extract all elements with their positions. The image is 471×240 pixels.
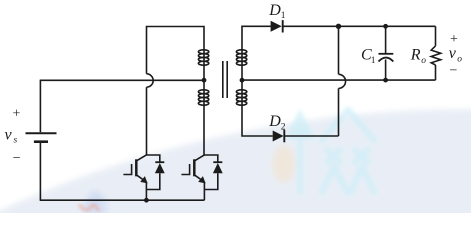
svg-text:v: v: [449, 45, 457, 62]
Q2 emitter arrowhead: [198, 176, 205, 183]
svg-text:1: 1: [281, 11, 286, 21]
svg-text:−: −: [449, 64, 457, 79]
watermark logo pink check: [79, 204, 99, 211]
transformer secondary bottom winding: [236, 90, 246, 106]
diode branch top: [204, 155, 217, 162]
Q1 freewheel diode triangle: [155, 163, 165, 173]
wire upper left loop: [147, 27, 205, 74]
body bar: [135, 159, 138, 176]
node Q1 emitter / bottom rail: [144, 198, 149, 203]
wire hop over battery wire: [147, 74, 154, 87]
collector diagonal: [195, 155, 205, 161]
transformer primary bottom winding: [198, 90, 208, 106]
wire D2 riser upper: [338, 26, 340, 74]
gate lead: [181, 164, 189, 175]
watermark character 檢 (drawn strokes): [285, 109, 374, 192]
wire battery top vertical: [39, 80, 41, 132]
wire secondary top to D1: [242, 26, 271, 50]
watermark orange swoosh blob: [272, 145, 296, 183]
wire battery+ horizontal to primary center tap: [40, 79, 204, 81]
wire secondary bottom to D2: [242, 106, 273, 136]
body bar: [193, 159, 196, 176]
node C1 top: [383, 24, 388, 29]
diode branch bottom: [204, 173, 217, 189]
Q2 freewheel diode bar: [213, 161, 222, 163]
diode branch top: [146, 155, 159, 162]
collector wire down: [145, 154, 147, 156]
svg-text:D: D: [268, 113, 281, 130]
wire D2 riser lower: [338, 88, 340, 136]
gate lead: [123, 164, 131, 175]
transistor Q1 (IGBT with freewheel diode): [123, 155, 159, 200]
wire output return (center tap to load): [242, 79, 436, 81]
svg-text:s: s: [14, 135, 18, 145]
diode D1: [271, 20, 283, 32]
capacitor C1 top lead: [385, 26, 387, 53]
Q1 emitter arrowhead: [140, 176, 147, 183]
capacitor C1 bottom lead: [385, 60, 387, 81]
wire primary bottom to Q2 collector: [203, 106, 205, 155]
svg-text:o: o: [421, 56, 426, 66]
diode D2: [273, 130, 285, 143]
transistor Q2 (IGBT with freewheel diode): [181, 155, 217, 200]
collector diagonal: [137, 155, 147, 161]
wire hop over output return: [339, 74, 346, 88]
emitter wire down: [203, 182, 205, 200]
wire battery bottom vertical: [39, 143, 41, 200]
svg-text:1: 1: [371, 56, 376, 66]
transformer primary top winding: [198, 50, 208, 66]
watermark logo pale blue blob (bottom-left): [83, 190, 108, 217]
svg-text:R: R: [410, 47, 421, 64]
node C1 bottom: [383, 78, 388, 83]
node D2 riser / top rail: [336, 24, 341, 29]
svg-text:o: o: [457, 55, 462, 65]
svg-text:−: −: [13, 151, 21, 166]
node secondary center tap: [240, 78, 245, 83]
node primary center tap: [202, 78, 207, 83]
transformer secondary top winding: [236, 50, 246, 66]
wire bottom rail: [40, 199, 205, 201]
svg-text:+: +: [12, 107, 20, 122]
wire D1 cathode to top rail: [283, 25, 436, 27]
watermark pale band (big circle fill, bottom-right): [0, 109, 471, 240]
transformer core lines: [223, 61, 227, 98]
svg-text:D: D: [268, 2, 281, 19]
emitter wire down: [145, 182, 147, 200]
svg-text:2: 2: [281, 122, 286, 132]
Q2 freewheel diode triangle: [213, 163, 223, 173]
wire primary mid: [203, 66, 205, 90]
diode branch bottom: [146, 173, 159, 189]
resistor Ro zigzag: [431, 46, 441, 65]
wire D2 cathode to riser: [284, 135, 338, 137]
wire top-left rail (Q1 collector to primary top): [146, 87, 148, 155]
capacitor C1 plates: [379, 54, 394, 62]
wire secondary mid: [241, 66, 243, 90]
emitter diagonal: [137, 175, 145, 181]
resistor Ro leads: [435, 26, 437, 46]
svg-text:v: v: [5, 127, 13, 144]
battery vs plates: [26, 133, 57, 142]
emitter diagonal: [195, 175, 203, 181]
Q1 freewheel diode bar: [155, 161, 164, 163]
